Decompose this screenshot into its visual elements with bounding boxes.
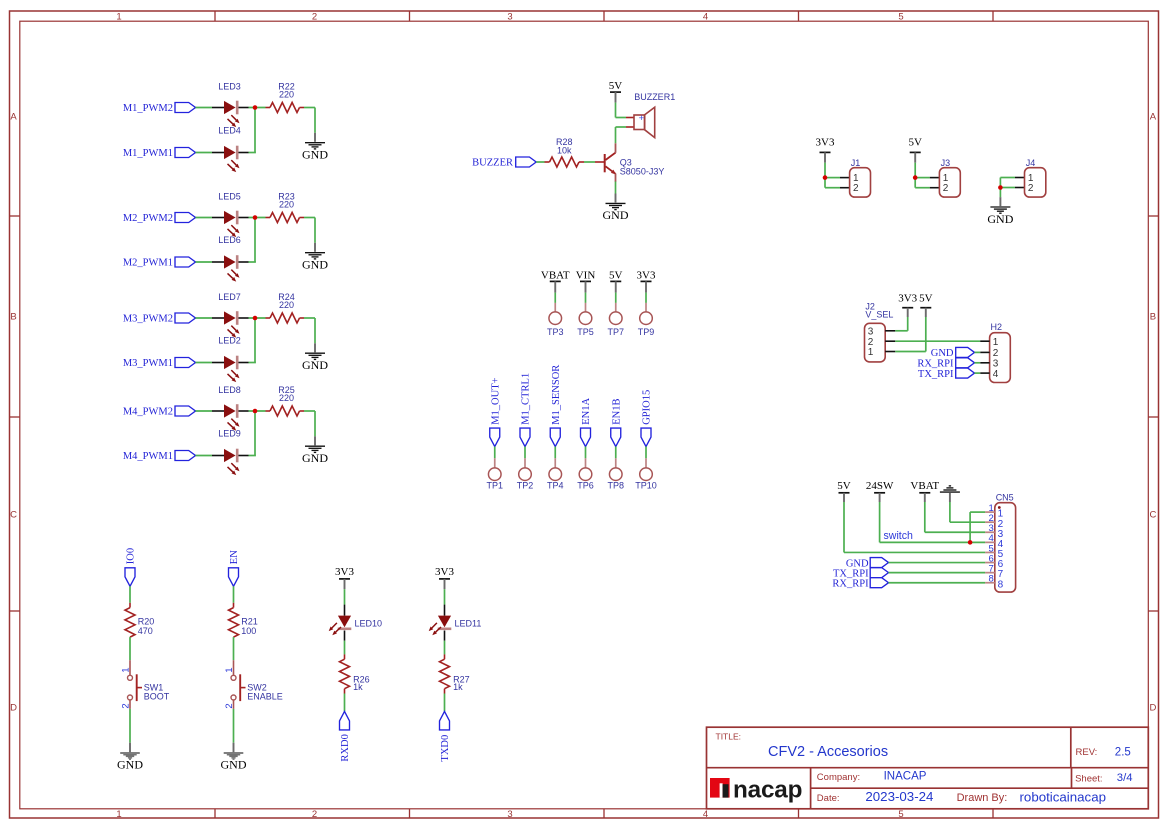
svg-text:LED11: LED11 xyxy=(455,619,482,629)
svg-text:+: + xyxy=(639,113,645,124)
svg-text:24SW: 24SW xyxy=(866,480,894,492)
svg-text:ENABLE: ENABLE xyxy=(247,692,283,702)
svg-text:2: 2 xyxy=(943,183,949,194)
svg-text:TP4: TP4 xyxy=(547,481,564,491)
svg-text:RXD0: RXD0 xyxy=(340,734,351,761)
svg-text:VIN: VIN xyxy=(576,270,596,282)
svg-text:Drawn By:: Drawn By: xyxy=(957,792,1008,804)
svg-text:M1_PWM2: M1_PWM2 xyxy=(123,103,173,114)
svg-text:LED7: LED7 xyxy=(218,292,241,302)
svg-text:H2: H2 xyxy=(991,322,1003,332)
svg-text:1k: 1k xyxy=(453,682,463,692)
svg-text:3V3: 3V3 xyxy=(816,136,835,148)
svg-text:5: 5 xyxy=(898,809,903,820)
svg-text:5V: 5V xyxy=(609,80,623,92)
svg-text:2.5: 2.5 xyxy=(1115,746,1131,758)
svg-text:TP1: TP1 xyxy=(486,481,503,491)
svg-text:3V3: 3V3 xyxy=(637,270,656,282)
svg-text:3V3: 3V3 xyxy=(435,566,454,578)
svg-text:M4_PWM1: M4_PWM1 xyxy=(123,451,173,462)
svg-text:BUZZER1: BUZZER1 xyxy=(634,92,675,102)
svg-text:3: 3 xyxy=(868,327,874,338)
svg-text:2023-03-24: 2023-03-24 xyxy=(865,789,933,804)
svg-text:M3_PWM1: M3_PWM1 xyxy=(123,358,173,369)
svg-text:GND: GND xyxy=(931,348,954,359)
svg-text:LED6: LED6 xyxy=(218,235,241,245)
svg-text:C: C xyxy=(10,509,17,520)
svg-text:1: 1 xyxy=(121,668,132,673)
svg-text:D: D xyxy=(1149,702,1156,713)
svg-text:CFV2 - Accesorios: CFV2 - Accesorios xyxy=(768,744,888,760)
svg-text:5V: 5V xyxy=(908,136,922,148)
svg-text:B: B xyxy=(1150,311,1156,322)
svg-text:220: 220 xyxy=(279,300,294,310)
svg-text:TP9: TP9 xyxy=(638,327,655,337)
svg-text:BOOT: BOOT xyxy=(144,692,170,702)
svg-text:A: A xyxy=(1150,111,1157,122)
svg-text:TP10: TP10 xyxy=(635,481,657,491)
svg-text:220: 220 xyxy=(279,393,294,403)
svg-text:switch: switch xyxy=(884,530,914,542)
svg-text:GND: GND xyxy=(987,212,1013,226)
svg-text:M1_CTRL1: M1_CTRL1 xyxy=(521,373,532,425)
svg-text:B: B xyxy=(10,311,16,322)
svg-text:8: 8 xyxy=(989,574,994,585)
svg-text:220: 220 xyxy=(279,200,294,210)
svg-text:EN1B: EN1B xyxy=(611,399,622,425)
svg-text:1: 1 xyxy=(116,11,121,22)
svg-text:R21: R21 xyxy=(241,617,258,627)
svg-text:V_SEL: V_SEL xyxy=(865,310,893,320)
svg-text:M3_PWM2: M3_PWM2 xyxy=(123,314,173,325)
svg-text:S8050-J3Y: S8050-J3Y xyxy=(620,167,665,177)
svg-text:3V3: 3V3 xyxy=(898,292,917,304)
svg-text:M4_PWM2: M4_PWM2 xyxy=(123,407,173,418)
svg-text:4: 4 xyxy=(703,809,708,820)
svg-text:RX_RPI: RX_RPI xyxy=(832,578,869,589)
svg-text:TP8: TP8 xyxy=(607,481,624,491)
svg-text:Date:: Date: xyxy=(817,793,840,804)
svg-text:GND: GND xyxy=(221,758,247,772)
svg-text:VBAT: VBAT xyxy=(541,270,570,282)
svg-text:J1: J1 xyxy=(851,158,861,168)
svg-text:Company:: Company: xyxy=(817,772,860,783)
svg-text:nacap: nacap xyxy=(733,777,802,804)
svg-text:TP6: TP6 xyxy=(577,481,594,491)
svg-text:D: D xyxy=(10,702,17,713)
svg-text:C: C xyxy=(1149,509,1156,520)
svg-text:2: 2 xyxy=(1028,183,1034,194)
svg-text:220: 220 xyxy=(279,90,294,100)
svg-text:LED2: LED2 xyxy=(218,336,241,346)
svg-text:VBAT: VBAT xyxy=(910,480,939,492)
svg-text:J3: J3 xyxy=(941,158,951,168)
svg-text:LED8: LED8 xyxy=(218,385,241,395)
svg-text:3/4: 3/4 xyxy=(1117,772,1133,784)
svg-text:M1_PWM1: M1_PWM1 xyxy=(123,148,173,159)
svg-text:TP5: TP5 xyxy=(577,327,594,337)
svg-text:CN5: CN5 xyxy=(996,493,1014,503)
svg-text:REV:: REV: xyxy=(1076,747,1098,758)
svg-text:GND: GND xyxy=(302,148,328,162)
svg-text:GPIO15: GPIO15 xyxy=(642,390,653,425)
svg-text:100: 100 xyxy=(241,626,256,636)
svg-text:5V: 5V xyxy=(609,270,623,282)
svg-text:5V: 5V xyxy=(837,480,851,492)
svg-text:M1_OUT+: M1_OUT+ xyxy=(490,377,501,424)
svg-text:LED10: LED10 xyxy=(355,619,383,629)
svg-text:TP3: TP3 xyxy=(547,327,564,337)
svg-text:TP2: TP2 xyxy=(517,481,534,491)
svg-text:roboticainacap: roboticainacap xyxy=(1020,789,1107,804)
svg-text:INACAP: INACAP xyxy=(884,771,927,783)
svg-text:J4: J4 xyxy=(1026,158,1036,168)
svg-text:3V3: 3V3 xyxy=(335,566,354,578)
svg-text:2: 2 xyxy=(312,11,317,22)
svg-text:LED4: LED4 xyxy=(218,126,241,136)
svg-text:Sheet:: Sheet: xyxy=(1075,774,1102,785)
svg-text:IO0: IO0 xyxy=(126,548,137,564)
svg-text:GND: GND xyxy=(117,758,143,772)
svg-text:4: 4 xyxy=(703,11,708,22)
svg-text:TXD0: TXD0 xyxy=(440,735,451,762)
svg-text:2: 2 xyxy=(993,348,999,359)
svg-text:470: 470 xyxy=(138,626,153,636)
svg-text:5V: 5V xyxy=(919,292,933,304)
svg-text:8: 8 xyxy=(998,579,1004,590)
svg-text:TITLE:: TITLE: xyxy=(716,732,742,742)
svg-text:LED3: LED3 xyxy=(218,81,241,91)
svg-text:M2_PWM2: M2_PWM2 xyxy=(123,213,173,224)
svg-text:1: 1 xyxy=(993,337,999,348)
svg-text:TX_RPI: TX_RPI xyxy=(918,369,954,380)
svg-text:M2_PWM1: M2_PWM1 xyxy=(123,258,173,269)
svg-text:3: 3 xyxy=(507,11,512,22)
svg-text:TP7: TP7 xyxy=(607,327,624,337)
svg-text:5: 5 xyxy=(898,11,903,22)
svg-text:1k: 1k xyxy=(353,682,363,692)
svg-text:A: A xyxy=(10,111,17,122)
svg-text:R20: R20 xyxy=(138,617,155,627)
svg-text:10k: 10k xyxy=(557,145,572,155)
svg-text:GND: GND xyxy=(302,358,328,372)
svg-text:LED5: LED5 xyxy=(218,191,241,201)
svg-text:BUZZER: BUZZER xyxy=(472,158,513,169)
svg-text:2: 2 xyxy=(853,183,859,194)
svg-text:1: 1 xyxy=(868,347,874,358)
svg-text:GND: GND xyxy=(302,258,328,272)
svg-text:2: 2 xyxy=(312,809,317,820)
svg-text:1: 1 xyxy=(116,809,121,820)
svg-text:1: 1 xyxy=(224,668,235,673)
svg-text:LED9: LED9 xyxy=(218,429,241,439)
svg-text:GND: GND xyxy=(603,208,629,222)
svg-text:EN: EN xyxy=(229,550,240,564)
svg-text:3: 3 xyxy=(507,809,512,820)
svg-text:GND: GND xyxy=(302,451,328,465)
svg-text:EN1A: EN1A xyxy=(581,398,592,425)
svg-text:4: 4 xyxy=(993,369,999,380)
svg-text:M1_SENSOR: M1_SENSOR xyxy=(551,365,562,425)
